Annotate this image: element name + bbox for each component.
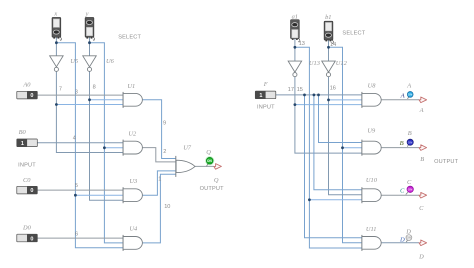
node a1-switch junction (294, 46, 297, 49)
svg-text:B: B (400, 140, 404, 147)
probe C magenta (406, 179, 414, 195)
and-gate U4 (123, 226, 142, 251)
svg-text:C0: C0 (23, 177, 31, 184)
wire net x branch (56, 43, 123, 248)
svg-text:SELECT: SELECT (342, 30, 365, 36)
wire switch-x stem (55, 37, 57, 56)
svg-text:8: 8 (93, 85, 96, 91)
svg-text:U11: U11 (366, 226, 377, 233)
wire net a branch (295, 47, 362, 248)
svg-text:C: C (407, 179, 412, 186)
probe D off gray (405, 228, 412, 242)
svg-text:5: 5 (75, 183, 78, 189)
wire net A0 (37, 94, 123, 96)
svg-text:U2: U2 (128, 130, 137, 137)
wire U11 output net D (381, 242, 419, 244)
probe B navy (407, 130, 413, 147)
and-gate U8 (362, 83, 381, 108)
wire net b spur to U9 (343, 147, 362, 149)
svg-text:Q: Q (206, 149, 211, 156)
svg-text:INPUT: INPUT (18, 162, 36, 168)
svg-text:OUTPUT: OUTPUT (434, 159, 459, 165)
wire switch-a1 stem (294, 39, 296, 62)
node F-tap U10 junction (313, 94, 316, 97)
svg-text:U10: U10 (366, 177, 378, 184)
svg-text:ON: ON (407, 236, 412, 240)
svg-text:10: 10 (164, 204, 170, 210)
svg-text:U6: U6 (106, 58, 115, 65)
wire U2 output net 2 (142, 148, 176, 162)
inverter U13 (288, 60, 320, 77)
output connector A arrow (419, 97, 427, 114)
wire net ybar column (90, 71, 124, 200)
svg-text:A: A (406, 83, 411, 90)
wire switch-y stem (89, 37, 91, 56)
and-gate U3 (123, 178, 142, 203)
node F-tap U9 junction (317, 94, 320, 97)
wire net bbar column (329, 77, 362, 195)
wire net B0 (37, 142, 123, 144)
node abar-U8 junction (294, 103, 297, 106)
wire U10 output net C (381, 194, 419, 196)
svg-text:ON: ON (408, 188, 413, 192)
svg-text:9: 9 (163, 120, 166, 126)
svg-text:D: D (405, 228, 411, 235)
svg-text:x: x (53, 11, 57, 18)
and-gate U9 (362, 127, 381, 155)
svg-text:2: 2 (163, 149, 166, 155)
wire net bbar spur to U8 (329, 99, 362, 101)
svg-text:15: 15 (297, 87, 303, 93)
and-gate U10 (362, 177, 381, 203)
svg-text:U4: U4 (129, 226, 138, 233)
wire U1 output net 9 (142, 100, 176, 159)
output connector C arrow (419, 192, 427, 211)
inverter U5 (50, 56, 78, 72)
wire net F tap to U9 (319, 95, 362, 143)
inverter U12 (322, 60, 348, 77)
wire net x spur to U3 (75, 194, 123, 196)
wire net b branch (329, 47, 362, 242)
svg-text:6: 6 (75, 232, 78, 238)
svg-text:1: 1 (21, 141, 24, 147)
svg-text:A: A (400, 93, 406, 100)
svg-text:U9: U9 (367, 127, 376, 134)
svg-text:7: 7 (59, 86, 62, 92)
node bbar-U8 junction (327, 99, 330, 102)
or-gate U7 (176, 144, 195, 177)
node b-U9 junction (341, 146, 344, 149)
output connector D arrow (418, 240, 427, 260)
wire net abar column (295, 77, 362, 153)
svg-text:0: 0 (30, 188, 33, 194)
svg-text:D: D (399, 237, 405, 244)
wire net F tap to U10 (314, 95, 362, 190)
svg-text:U13: U13 (309, 60, 320, 67)
svg-text:1: 1 (158, 176, 161, 182)
switch y (85, 11, 95, 41)
wire U3 output net 1 (142, 171, 176, 195)
svg-text:y: y (85, 11, 89, 18)
svg-text:F: F (263, 81, 268, 88)
svg-text:ON: ON (408, 140, 413, 144)
wire switch-b1 stem (328, 40, 330, 61)
node y-U2 junction (103, 146, 106, 149)
svg-text:17: 17 (288, 87, 294, 93)
svg-text:B: B (408, 130, 412, 137)
svg-text:14: 14 (330, 42, 336, 48)
svg-text:U5: U5 (70, 58, 78, 65)
svg-text:D0: D0 (22, 225, 32, 232)
svg-text:B0: B0 (19, 129, 27, 136)
probe Q green (205, 149, 214, 167)
svg-text:U3: U3 (129, 178, 137, 185)
probe A blue (406, 83, 413, 99)
node x-switch junction (55, 41, 58, 44)
wire net a spur to U10 (309, 199, 362, 201)
wire U9 output net B (381, 147, 419, 149)
svg-text:U8: U8 (368, 83, 377, 90)
switch b1 (324, 14, 333, 44)
svg-text:0: 0 (30, 93, 33, 99)
wire net D0 (37, 237, 123, 239)
node F-tap U11 junction (303, 94, 306, 97)
svg-text:U12: U12 (336, 60, 348, 67)
output connector Q arrow (200, 164, 225, 192)
svg-text:3: 3 (75, 90, 78, 96)
node xbar-U1 junction (55, 103, 58, 106)
and-gate U1 (123, 83, 142, 108)
svg-text:0: 0 (30, 236, 33, 242)
svg-text:B: B (420, 156, 424, 163)
wire OR output net Q (195, 165, 214, 167)
and-gate U11 (362, 226, 381, 251)
wire U4 output net 10 (142, 174, 176, 243)
wire net xbar column (56, 71, 123, 152)
inverter U6 (83, 56, 115, 72)
wire net F row (276, 94, 362, 96)
wire net ybar spur to U1 (90, 99, 124, 101)
svg-text:U7: U7 (183, 144, 192, 151)
svg-text:A0: A0 (22, 82, 31, 89)
svg-text:C: C (400, 188, 405, 195)
svg-text:b1: b1 (325, 14, 331, 21)
svg-text:C: C (419, 205, 424, 212)
constant B0 value 1 (17, 129, 38, 147)
wire net xbar spur to U1 (56, 104, 123, 106)
svg-text:ON: ON (207, 159, 212, 163)
svg-text:A: A (419, 107, 424, 114)
node y-switch junction (88, 41, 91, 44)
wire net F tap to U11 (305, 95, 362, 238)
switch x (52, 11, 61, 41)
svg-text:1: 1 (259, 93, 262, 99)
constant F value 1 (255, 81, 275, 99)
svg-text:Q: Q (214, 177, 219, 184)
constant C0 value 0 (17, 177, 38, 194)
switch a1 (291, 14, 300, 42)
node a-U10 junction (308, 198, 311, 201)
svg-text:SELECT: SELECT (118, 35, 141, 41)
constant D0 value 0 (17, 225, 38, 243)
svg-text:D: D (418, 253, 424, 260)
svg-text:OUTPUT: OUTPUT (200, 186, 225, 192)
svg-text:INPUT: INPUT (257, 105, 275, 111)
wire net y branch (90, 43, 124, 243)
wire net y spur to U2 (104, 147, 123, 149)
svg-text:ON: ON (408, 93, 413, 97)
svg-text:U1: U1 (127, 83, 135, 90)
wire net C0 (37, 189, 123, 191)
node x-U3 junction (74, 194, 77, 197)
wire U8 output net A (381, 99, 419, 101)
constant A0 value 0 (17, 82, 38, 100)
node b1-switch junction (327, 46, 330, 49)
node ybar-U1 junction (88, 98, 91, 101)
output connector B arrow (419, 145, 459, 165)
wire net abar spur to U8 (295, 104, 362, 106)
svg-text:16: 16 (330, 85, 336, 91)
and-gate U2 (123, 130, 142, 155)
svg-text:4: 4 (73, 135, 76, 141)
svg-text:13: 13 (299, 41, 305, 47)
